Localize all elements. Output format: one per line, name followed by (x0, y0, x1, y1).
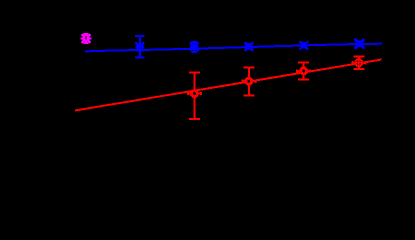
B1 y-error bar (139, 36, 141, 58)
B2 asterisk marker (190, 42, 199, 51)
B1 asterisk marker (136, 43, 145, 52)
R3 x-error right cap (309, 69, 311, 72)
R4 x-error bar (352, 62, 365, 64)
R2 y-error top cap (243, 67, 254, 69)
R2 y-error bottom cap (243, 95, 254, 97)
blue data point B5 (355, 39, 365, 49)
red data point R1 (188, 72, 201, 119)
error bars crossing marker centre (356, 60, 361, 65)
R1 x-error right cap (200, 92, 202, 95)
B1 y-error top cap (135, 35, 145, 37)
R1 y-error bar (193, 72, 195, 119)
R3 y-error top cap (298, 62, 309, 64)
R4 circle marker (355, 59, 363, 67)
M1 y-error top cap (84, 33, 89, 35)
B5 asterisk marker (355, 39, 365, 49)
B2 y-error top cap (192, 41, 197, 43)
R3 circle marker (300, 67, 308, 75)
B3 asterisk marker (245, 42, 254, 51)
M1 x-error bar (81, 37, 92, 39)
blue data point B3 (244, 42, 253, 51)
R2 circle marker (245, 77, 253, 85)
B4 asterisk marker (300, 41, 309, 50)
R4 y-error top cap (353, 55, 364, 57)
R1 circle marker (190, 89, 198, 97)
R2 y-error bar (248, 68, 250, 96)
blue data point B2 (190, 42, 199, 52)
R1 x-error left cap (187, 92, 189, 95)
red data point R2 (242, 68, 255, 96)
blue data point B1 (135, 36, 145, 58)
red model line (75, 60, 382, 111)
R1 y-error bottom cap (189, 118, 200, 120)
R2 x-error right cap (254, 80, 256, 83)
B1 y-error bottom cap (135, 57, 145, 59)
M1 y-error bottom cap (84, 42, 89, 44)
M1 marker centre slit (86, 36, 87, 39)
blue model curve (85, 44, 382, 52)
M1 square marker (84, 35, 89, 40)
R4 x-error right cap (364, 61, 366, 64)
R1 y-error top cap (189, 71, 200, 73)
R2 x-error bar (242, 80, 255, 82)
red data point R3 (297, 63, 310, 80)
R4 y-error bottom cap (353, 68, 364, 70)
R1 x-error bar (188, 93, 201, 95)
R4 x-error left cap (351, 61, 353, 64)
R4 y-error bar (358, 56, 360, 69)
B2 y-error bar (193, 42, 195, 52)
red data point R4 (352, 56, 365, 69)
R3 y-error bar (303, 63, 305, 80)
R3 x-error bar (297, 70, 310, 72)
R3 y-error bottom cap (298, 78, 309, 80)
B2 y-error bottom cap (192, 51, 197, 53)
blue data point B4 (300, 41, 309, 50)
M1 y-error top stub (85, 33, 87, 35)
magenta data point M1 (81, 33, 92, 43)
R2 x-error left cap (241, 80, 243, 83)
M1 y-error bottom stub (85, 40, 87, 44)
R3 x-error left cap (296, 69, 298, 72)
M1 X marker (82, 34, 91, 43)
